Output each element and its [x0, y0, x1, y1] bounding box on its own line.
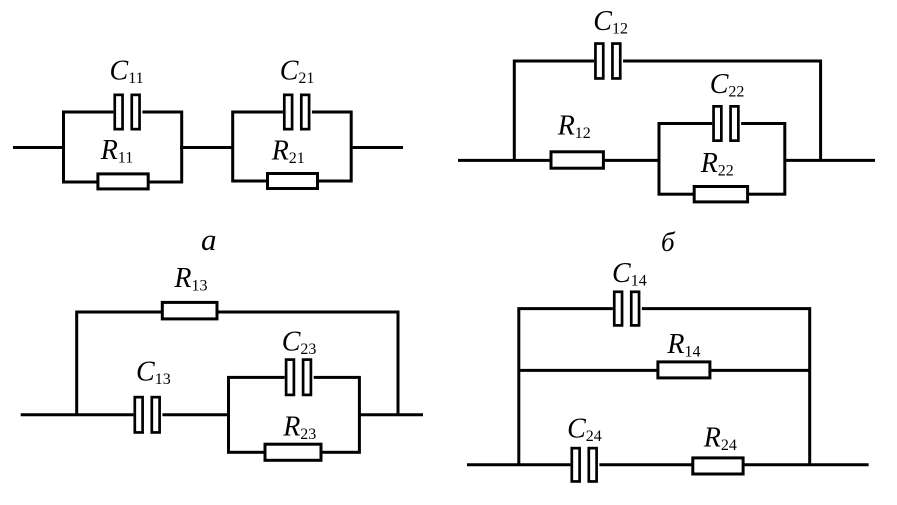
capacitor C14 [613, 290, 642, 327]
node box R11/C11 parallel loop [64, 112, 182, 182]
resistor R12 [551, 152, 603, 168]
wire C12 bypass loop [514, 61, 820, 160]
wire middle branch with R14 [519, 369, 810, 372]
capacitor C24 [570, 447, 599, 483]
capacitor C12 [594, 42, 623, 80]
wire between R11C11 loop and R21C21 loop [180, 146, 234, 149]
capacitor C11 [113, 93, 142, 130]
resistor R21 [268, 174, 318, 189]
resistor R23 [265, 444, 321, 460]
wire main line left of circuit v [21, 413, 230, 416]
capacitor C21 [283, 93, 312, 130]
resistor R24 [693, 458, 743, 474]
wire outer loop with C14 of circuit g [519, 309, 810, 465]
wire main line right part of circuit b [785, 159, 875, 162]
resistor R14 [658, 362, 710, 378]
wire right lead of circuit a [350, 146, 403, 149]
node box R22/C22 parallel loop [659, 124, 785, 195]
resistor R11 [98, 174, 148, 189]
resistor R22 [694, 187, 747, 202]
wire main line right of circuit v [359, 413, 423, 416]
capacitor C22 [712, 105, 741, 142]
wire R13 bypass loop [77, 312, 398, 415]
wire main line of circuit b [458, 159, 660, 162]
node box R23/C23 parallel loop [229, 377, 360, 452]
resistor R13 [162, 302, 217, 319]
wire bottom main line of circuit g [467, 463, 869, 466]
svg-text:а: а [201, 222, 217, 257]
capacitor C13 [133, 396, 162, 434]
capacitor C23 [285, 358, 314, 396]
wire left lead of circuit a [13, 146, 65, 149]
node box R21/C21 parallel loop [233, 112, 352, 181]
svg-text:б: б [661, 227, 676, 257]
